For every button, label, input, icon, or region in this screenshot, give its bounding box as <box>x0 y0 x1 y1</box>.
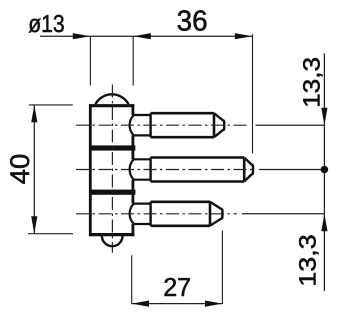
arrow 36 right (points right) <box>235 33 253 39</box>
shared point dot at middle pin axis <box>321 166 329 174</box>
40 bottom extension line <box>28 233 73 235</box>
hinge barrel body outline <box>90 104 133 236</box>
barrel vertical centerline <box>111 85 113 253</box>
shared extension line (dia13 right / 36 left) <box>132 36 134 85</box>
arrow dia13 left (points right) <box>73 33 91 39</box>
arrow 27 left (points left) <box>132 301 150 307</box>
pin P1 (top) chamfered tip <box>214 113 224 137</box>
svg-text:40: 40 <box>5 154 35 185</box>
top dimension line (shared by dia 13 and 36) <box>40 35 252 37</box>
pin P2 (middle) chamfered tip <box>244 158 253 182</box>
arrow 13,3 top (points down to top pin axis) <box>321 108 327 126</box>
arrow 27 right (points right) <box>205 301 223 307</box>
svg-text:13,3: 13,3 <box>299 57 325 108</box>
dia13 left extension line <box>89 36 91 85</box>
pin P2 (middle) threaded body <box>151 158 245 182</box>
pin P3 (bottom) axis extension to 13,3 dimension line <box>242 213 324 215</box>
svg-text:ø13: ø13 <box>28 11 64 38</box>
pin P1 (top) thread start line <box>149 113 151 137</box>
pin P2 (middle) fillet arc <box>130 159 134 179</box>
top dome cap <box>95 94 128 104</box>
knuckle divider gap 2 <box>89 190 135 195</box>
36 right extension line at middle pin tip <box>252 34 254 153</box>
arrow 40 bottom (points down) <box>31 216 37 234</box>
svg-text:36: 36 <box>177 6 208 38</box>
pin P2 (middle) shank neck <box>133 159 151 179</box>
pin P1 (top) fillet arc <box>130 115 134 135</box>
40 dimension line <box>33 105 35 234</box>
pin P2 (middle) axis extension to 13,3 dimension line <box>259 169 324 171</box>
pin P3 (bottom) centerline <box>76 213 237 215</box>
pin P2 (middle) centerline <box>76 169 255 171</box>
27 left extension line <box>131 255 133 303</box>
pin P1 (top) shank neck <box>133 115 151 135</box>
pin P3 (bottom) chamfered tip <box>210 202 222 226</box>
arrow dia13 right / 36 left (points left) <box>133 33 151 39</box>
pin P3 (bottom) thread start line <box>149 202 151 226</box>
13,3 dimension line (right side) <box>323 54 325 292</box>
40 top extension line <box>29 104 73 106</box>
pin P3 (bottom) threaded body <box>151 202 210 226</box>
svg-text:27: 27 <box>163 272 191 302</box>
pin P3 (bottom) shank neck <box>133 204 151 224</box>
pin P1 (top) axis extension to 13,3 dimension line <box>256 124 325 126</box>
pin P1 (top) threaded body <box>151 113 214 137</box>
pin P2 (middle) thread start line <box>149 158 151 182</box>
27 right extension line at bottom pin tip <box>221 230 223 304</box>
27 dimension line <box>132 303 223 305</box>
svg-text:13,3: 13,3 <box>295 234 321 287</box>
arrow 40 top (points up) <box>31 105 37 123</box>
knuckle divider gap 1 <box>89 145 135 150</box>
bottom dome cap <box>102 236 123 246</box>
arrow 13,3 bottom (points up to bottom pin axis) <box>321 214 327 232</box>
pin P1 (top) centerline <box>76 124 250 126</box>
pin P3 (bottom) fillet arc <box>130 204 134 224</box>
